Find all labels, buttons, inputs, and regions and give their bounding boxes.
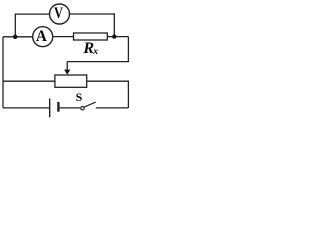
wire voltmeter right branch (right and down): [70, 14, 115, 37]
battery short plate (negative): [57, 102, 59, 112]
resistor label Rx: [82, 40, 98, 57]
wire right rail upper (down to slider wire): [67, 37, 128, 62]
wire battery to switch: [60, 107, 81, 109]
voltmeter label V: [54, 5, 64, 22]
ammeter A circle: [33, 27, 53, 47]
battery long plate (positive): [49, 99, 51, 118]
wire ammeter to resistor: [53, 36, 74, 38]
switch lever: [84, 102, 96, 107]
wire bottom left to battery: [3, 107, 49, 109]
wire rheostat left terminal to left rail: [3, 80, 55, 82]
wire switch to bottom right corner: [96, 107, 129, 109]
svg-text:V: V: [54, 5, 64, 22]
resistor Rx body: [74, 33, 108, 40]
svg-text:A: A: [36, 28, 47, 45]
rheostat slider arrow: [64, 62, 70, 75]
node junction dot left: [13, 35, 17, 39]
wire left rail: [2, 37, 4, 108]
ammeter label A: [36, 28, 47, 45]
wire resistor to right junction: [107, 36, 128, 38]
node junction dot right: [112, 34, 116, 38]
svg-text:x: x: [92, 47, 98, 57]
wire top-left horizontal to ammeter: [3, 36, 32, 38]
switch pivot circle: [81, 107, 84, 110]
wire rheostat right terminal to right rail: [87, 81, 129, 108]
rheostat body: [55, 75, 87, 87]
voltmeter U1 circle: [50, 4, 70, 24]
wire voltmeter left branch (up and right): [15, 14, 49, 37]
switch label S: [76, 90, 83, 104]
svg-text:S: S: [76, 90, 83, 104]
